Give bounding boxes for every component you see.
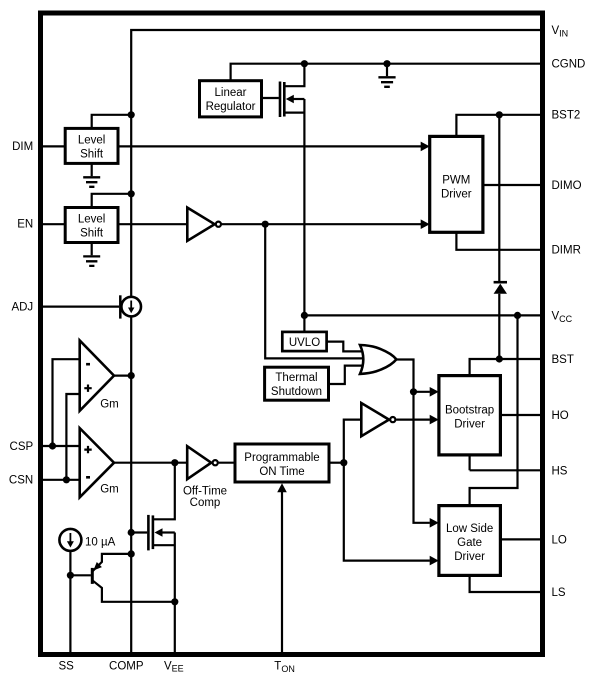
box Low Side Gate Driver — [439, 506, 501, 576]
node CSN — [63, 476, 70, 483]
wire node down to low side input 2 — [344, 463, 430, 561]
svg-text:CGND: CGND — [552, 59, 586, 71]
svg-text:PWM: PWM — [442, 174, 470, 186]
svg-text:Linear: Linear — [215, 87, 247, 99]
wire EN inverter output to PWM driver — [222, 223, 422, 225]
wire OR branch down to low side input 1 — [414, 392, 430, 523]
svg-text:Off-Time: Off-Time — [183, 485, 227, 497]
wire DIM line — [41, 145, 66, 147]
svg-text:LO: LO — [552, 534, 567, 546]
box Linear Regulator — [200, 81, 262, 117]
wire Gm1 output to rail — [114, 375, 131, 377]
transistor Q3 PNP — [92, 554, 175, 602]
wire base line to Q3 — [70, 574, 91, 576]
box Level Shift (DIM) — [65, 128, 118, 163]
arrowhead TON up into box — [277, 483, 287, 492]
svg-text:BST: BST — [552, 354, 574, 366]
box Thermal Shutdown — [265, 367, 329, 400]
diode D1 bootstrap — [494, 115, 507, 359]
wire CSN branch up to Gm1 plus input — [66, 394, 80, 480]
node BST2 / diode — [496, 111, 503, 118]
wire BST2 line — [456, 115, 540, 137]
transistor Q1 pass FET — [280, 64, 304, 117]
svg-text:Shift: Shift — [80, 228, 104, 240]
svg-text:Gm: Gm — [100, 398, 119, 410]
node rail / Gm1 output — [128, 372, 135, 379]
svg-text:10 µA: 10 µA — [85, 537, 116, 549]
arrowhead into low side input 1 — [430, 518, 439, 528]
svg-text:LS: LS — [552, 587, 566, 599]
wire VCC feed down to low side driver — [470, 315, 518, 505]
ground under level shift 1 — [83, 163, 100, 186]
svg-text:Regulator: Regulator — [206, 101, 256, 113]
svg-text:EN: EN — [17, 219, 33, 231]
inverter U2 (EN) — [187, 208, 221, 241]
box Programmable ON Time — [235, 444, 329, 482]
svg-text:Comp: Comp — [190, 497, 221, 509]
svg-text:HS: HS — [552, 465, 568, 477]
svg-text:DIMO: DIMO — [552, 180, 582, 192]
wire level shift 2 top feed to VIN rail — [92, 194, 132, 208]
svg-text:DIM: DIM — [12, 141, 33, 153]
wire thermal shutdown output to OR gate — [329, 366, 364, 384]
wire VCC rail from Q1 source down to UVLO — [303, 99, 305, 332]
wire DIMR line — [456, 232, 540, 250]
svg-text:Bootstrap: Bootstrap — [445, 404, 494, 416]
node VCC line / low side feed — [514, 312, 521, 319]
box UVLO — [282, 332, 326, 351]
svg-text:SS: SS — [59, 660, 75, 672]
OR gate U4 — [360, 345, 396, 374]
node VIN rail / level shift 2 — [128, 190, 135, 197]
outer border — [41, 13, 543, 655]
arrowhead into low side input 2 — [430, 556, 439, 566]
svg-text:Low Side: Low Side — [446, 523, 493, 535]
svg-text:Shift: Shift — [80, 148, 104, 160]
node SS / Q3 base — [67, 572, 74, 579]
node EN inverter output branch — [262, 221, 269, 228]
node VCC rail / VCC line — [301, 312, 308, 319]
svg-text:ADJ: ADJ — [11, 302, 33, 314]
wire node up to inverter U3 input — [344, 420, 362, 463]
box PWM Driver — [430, 136, 483, 232]
arrowhead into PWM driver input 2 — [421, 219, 430, 229]
svg-text:Gate: Gate — [457, 537, 482, 549]
svg-text:Driver: Driver — [441, 188, 472, 200]
wire Gm2 output line to off-time comp — [114, 462, 187, 464]
wire level shift 1 top feed to VIN rail — [92, 115, 132, 129]
current source I2 10uA — [59, 529, 115, 551]
node rail / Q3 emitter — [128, 550, 135, 557]
svg-text:DIMR: DIMR — [552, 245, 581, 257]
wire OR output down to bootstrap input 1 — [397, 360, 414, 392]
wire TON pin up into programmable box — [281, 492, 283, 653]
svg-text:Gm: Gm — [100, 484, 119, 496]
wire CGND line — [231, 64, 540, 81]
node rail / Q2 gate — [128, 529, 135, 536]
svg-text:ON Time: ON Time — [259, 466, 304, 478]
wire UVLO output to OR gate — [327, 342, 363, 352]
wire programmable output to node — [329, 462, 344, 464]
node CGND / ground — [383, 60, 390, 67]
svg-text:Thermal: Thermal — [275, 372, 317, 384]
wire EN branch down to OR gate middle input — [265, 224, 366, 358]
wire HS line — [470, 455, 540, 470]
wire DIMO line — [483, 184, 540, 186]
wire Q2 gate from rail — [131, 531, 147, 533]
svg-text:Driver: Driver — [454, 418, 485, 430]
arrowhead into PWM driver input 1 — [421, 142, 430, 152]
wire CSN line — [41, 479, 81, 481]
node VEE / Q3 collector — [171, 598, 178, 605]
svg-text:UVLO: UVLO — [289, 337, 320, 349]
wire LS line — [470, 575, 540, 592]
ground under level shift 2 — [83, 243, 100, 266]
wire HO line — [500, 414, 540, 416]
ground on CGND line — [378, 64, 395, 87]
inverter U3 — [361, 403, 395, 436]
wire LO line — [500, 538, 540, 540]
wire BST line — [470, 359, 540, 376]
node Gm2 output / Q2 drain — [171, 459, 178, 466]
svg-text:HO: HO — [552, 410, 569, 422]
op-amp Gm1 — [80, 341, 119, 411]
arrowhead into bootstrap input 1 — [430, 387, 439, 397]
svg-text:Shutdown: Shutdown — [271, 386, 322, 398]
wire CSP line — [41, 445, 81, 447]
svg-text:Level: Level — [78, 134, 106, 146]
wire VIN rail (VIN pin line and COMP rail) — [131, 30, 540, 652]
wire off-time comp output — [219, 462, 235, 464]
wire CSP branch up to Gm1 minus input — [53, 359, 81, 446]
node CGND / Q1 drain — [301, 60, 308, 67]
svg-text:BST2: BST2 — [552, 110, 581, 122]
node OR output branch — [410, 388, 417, 395]
node VIN rail / level shift 1 — [128, 111, 135, 118]
box Level Shift (EN) — [65, 208, 118, 243]
svg-text:CSP: CSP — [10, 441, 34, 453]
svg-text:COMP: COMP — [109, 660, 144, 672]
node programmable output branch — [340, 459, 347, 466]
wire inverter U3 output to bootstrap input 2 — [396, 419, 430, 421]
wire ADJ line — [41, 306, 119, 308]
node CSP — [49, 442, 56, 449]
svg-text:Driver: Driver — [454, 551, 485, 563]
svg-text:Level: Level — [78, 214, 106, 226]
svg-text:Programmable: Programmable — [244, 452, 319, 464]
op-amp Gm2 — [80, 428, 119, 497]
wire Q1 gate — [262, 97, 279, 99]
wire VCC line — [304, 314, 540, 316]
comparator Off-Time Comp — [183, 446, 227, 509]
current source I1 (ADJ controlled) — [120, 295, 141, 318]
box Bootstrap Driver — [439, 376, 501, 455]
wire SS pin line — [69, 551, 71, 652]
arrowhead into bootstrap input 2 — [430, 415, 439, 425]
wire EN line — [41, 223, 66, 225]
transistor Q2 — [148, 463, 174, 652]
node BST / diode — [496, 355, 503, 362]
svg-text:CSN: CSN — [9, 475, 33, 487]
